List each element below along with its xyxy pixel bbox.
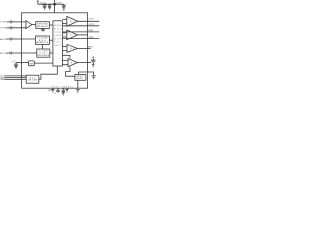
- svg-text:+: +: [95, 57, 97, 59]
- svg-text:CTRL: CTRL: [54, 32, 61, 34]
- svg-text:P5: P5: [70, 86, 73, 88]
- svg-text:P4: P4: [66, 86, 69, 88]
- capacitor C2: [48, 4, 51, 7]
- svg-text:TV IN L: TV IN L: [0, 22, 6, 24]
- capacitor bottom 2: [62, 88, 65, 93]
- wire logic to A4 inputs: [62, 61, 68, 65]
- svg-text:+: +: [68, 47, 70, 49]
- wire OUT1: [78, 20, 100, 22]
- wire: [42, 44, 44, 49]
- ground: [43, 7, 46, 9]
- logic block: [53, 21, 63, 66]
- svg-text:P1: P1: [52, 86, 55, 88]
- svg-text:SEL: SEL: [54, 42, 61, 44]
- svg-text:ENB: ENB: [0, 79, 4, 81]
- wire OUT4: [63, 38, 99, 40]
- svg-text:A4: A4: [71, 61, 75, 64]
- wire regulator ground pin: [77, 80, 79, 88]
- input buffer amp: [26, 21, 32, 29]
- op-amp A4: [68, 59, 78, 67]
- svg-text:A3: A3: [70, 47, 74, 50]
- svg-text:Vcc 9V: Vcc 9V: [40, 2, 47, 4]
- svg-text:MGMT: MGMT: [76, 78, 83, 80]
- wire logic to A2 inputs: [62, 33, 66, 37]
- svg-text:BUS: BUS: [54, 38, 62, 40]
- bypass pin wire: [16, 62, 28, 64]
- svg-text:BALANCE CTL: BALANCE CTL: [36, 41, 48, 44]
- block preamp: [36, 22, 50, 29]
- ground: [76, 90, 80, 93]
- ground: [48, 7, 51, 9]
- wire OUT6: [78, 62, 91, 64]
- wire: [50, 24, 53, 26]
- svg-text:TV IN R: TV IN R: [0, 28, 7, 30]
- wire: [55, 3, 64, 5]
- svg-text:OUT L: OUT L: [89, 19, 95, 21]
- capacitor CIN1: [10, 21, 12, 24]
- block oscillator: [37, 49, 50, 57]
- svg-text:LINE L: LINE L: [89, 30, 94, 32]
- text labels: [0, 2, 97, 95]
- capacitor CIN3: [10, 38, 12, 41]
- svg-text:DECODER: DECODER: [28, 80, 38, 82]
- IC package boundary: [22, 13, 88, 88]
- digital pin wire D1: [4, 75, 26, 77]
- svg-text:A1: A1: [70, 20, 74, 23]
- input pin IN2 wire: [7, 27, 26, 29]
- wire regulator top to gnd pin: [79, 72, 94, 76]
- supply rail: [38, 3, 55, 5]
- svg-text:1uF: 1uF: [11, 61, 16, 63]
- wire logic to A1 inputs: [62, 19, 66, 23]
- capacitor bottom: [56, 88, 59, 93]
- input pin IN3 wire: [7, 38, 36, 40]
- svg-text:AND SELECT: AND SELECT: [37, 25, 50, 28]
- wire logic to A3 inputs: [62, 46, 67, 50]
- svg-text:A2: A2: [70, 34, 74, 37]
- digital pin wire D3: [4, 79, 26, 81]
- block detector: [35, 36, 49, 44]
- capacitor C1: [43, 4, 47, 7]
- input pin IN4 wire: [7, 52, 37, 54]
- wire logic to bottom block: [39, 66, 58, 79]
- ground pin bottom 1: [51, 88, 55, 92]
- svg-text:LINE R: LINE R: [89, 37, 95, 39]
- wire: [34, 62, 53, 64]
- svg-text:P2: P2: [56, 86, 59, 88]
- ground: [62, 8, 65, 10]
- op-amp A1: [67, 16, 78, 26]
- supply terminal: [54, 0, 56, 13]
- wire: [32, 24, 36, 26]
- svg-text:P3: P3: [62, 86, 65, 88]
- wire snake feedback: [62, 55, 75, 76]
- wire A2 tip: [78, 34, 88, 36]
- wire OUT3: [63, 31, 99, 33]
- svg-text:+: +: [68, 19, 70, 21]
- svg-text:.1u: .1u: [53, 93, 56, 95]
- ground: [15, 67, 18, 69]
- block ref rounded: [28, 61, 34, 66]
- svg-text:MODE: MODE: [54, 25, 62, 27]
- svg-text:+: +: [27, 23, 29, 25]
- capacitor C3 electrolytic: [62, 4, 66, 8]
- ground arrow: [92, 65, 94, 67]
- capacitor CBYP: [14, 63, 18, 67]
- svg-text:+: +: [69, 61, 71, 63]
- op-amp A2: [67, 30, 78, 40]
- svg-text:+: +: [66, 3, 68, 5]
- digital pin wire D2: [4, 77, 26, 79]
- ground pin bottom 2: [65, 88, 68, 92]
- block bottom-right regulator: [75, 75, 86, 81]
- svg-text:PROCESSOR: PROCESSOR: [37, 55, 50, 57]
- svg-text:SUB W: SUB W: [88, 46, 93, 48]
- capacitor COUT electrolytic: [91, 56, 96, 64]
- op-amp A3: [67, 44, 77, 52]
- block bottom-left interface: [26, 75, 39, 83]
- terminal bar: [37, 1, 39, 4]
- svg-text:AND: AND: [54, 28, 62, 31]
- svg-text:LOGIC: LOGIC: [54, 35, 62, 37]
- wire: [49, 39, 53, 41]
- svg-text:+: +: [68, 33, 70, 35]
- ground stub: [41, 28, 45, 31]
- svg-text:UNIT: UNIT: [54, 45, 62, 47]
- svg-text:0.1uF: 0.1uF: [57, 2, 63, 4]
- svg-text:REF: REF: [29, 63, 34, 65]
- svg-text:MIC IN: MIC IN: [0, 53, 7, 55]
- svg-text:OUT R: OUT R: [89, 24, 95, 26]
- wire OUT2: [63, 25, 99, 27]
- wire: [50, 52, 53, 54]
- ground: [62, 93, 65, 95]
- ground: [91, 76, 95, 79]
- capacitor CIN2: [10, 26, 12, 29]
- wire OUT5: [77, 47, 90, 49]
- input pin IN1 wire: [7, 21, 26, 23]
- capacitor CIN4: [10, 52, 12, 55]
- svg-text:AUX IN: AUX IN: [0, 38, 7, 41]
